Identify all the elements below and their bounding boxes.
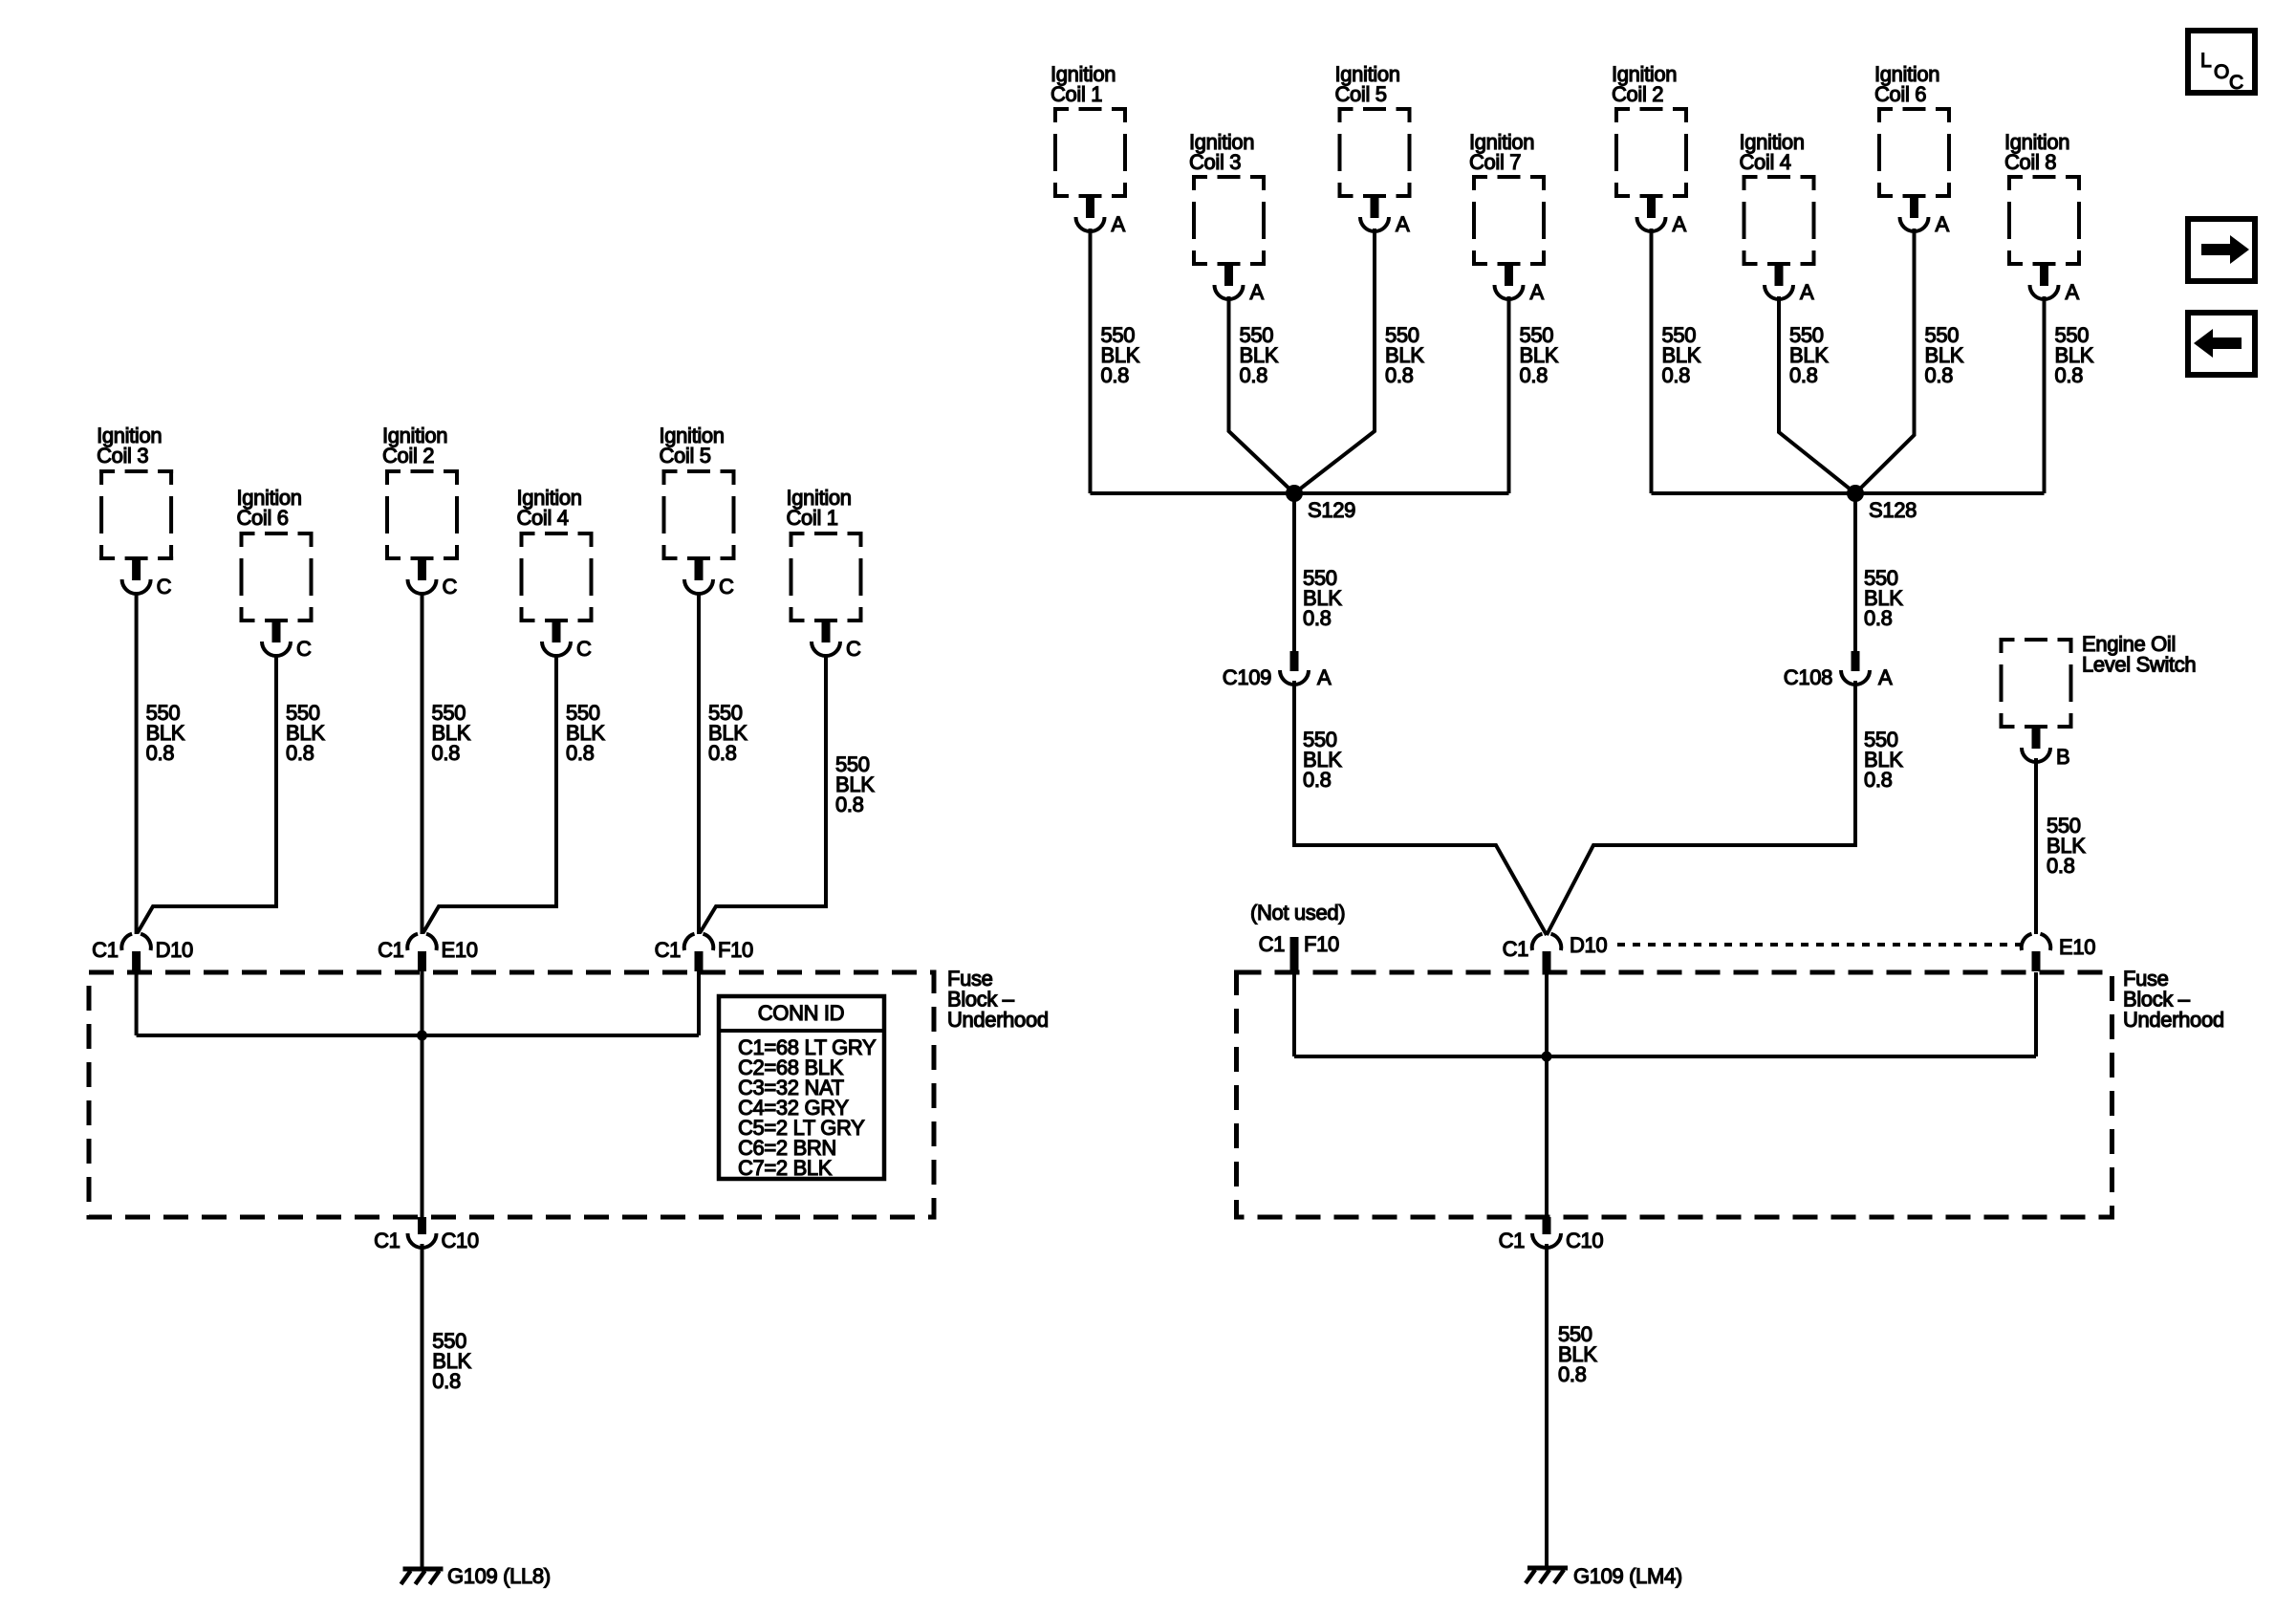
wire label 550 BLK 0.8 (1101, 323, 1140, 387)
wire label 550 BLK 0.8 (566, 701, 605, 765)
connector pin C of Ignition Coil 3 (122, 560, 151, 594)
svg-text:Coil 2: Coil 2 (382, 444, 434, 468)
svg-text:0.8: 0.8 (1303, 606, 1332, 630)
svg-text:Coil 2: Coil 2 (1612, 82, 1663, 106)
svg-text:0.8: 0.8 (1925, 363, 1954, 387)
splice S129 dot (1286, 485, 1303, 502)
Ignition Coil 3 dashed box (99, 469, 173, 560)
fuse block underhood (right) label (2123, 967, 2224, 1032)
connector pin A of Ignition Coil 7 (right) (1495, 266, 1524, 299)
wire label 550 BLK 0.8 (1385, 323, 1424, 387)
inline connector C109 (1280, 651, 1309, 685)
wire label 550 BLK 0.8 (1789, 323, 1829, 387)
svg-text:C: C (2229, 72, 2243, 94)
wire S129 to C109 (1292, 493, 1296, 651)
svg-text:C10: C10 (1566, 1229, 1603, 1252)
svg-text:0.8: 0.8 (1240, 363, 1268, 387)
svg-text:0.8: 0.8 (708, 741, 737, 765)
svg-text:A: A (1112, 212, 1126, 236)
wire Ignition Coil 2 to E10 (421, 594, 424, 934)
svg-text:(Not used): (Not used) (1250, 901, 1345, 925)
wire C109 to D10 (1294, 681, 1547, 935)
svg-text:0.8: 0.8 (1520, 363, 1549, 387)
svg-text:C1: C1 (378, 938, 404, 962)
connector E10 at right fuse block (2022, 934, 2051, 971)
Ignition Coil 4 (right) dashed box (1743, 175, 1816, 266)
inline connector C108 (1841, 651, 1870, 685)
wire label 550 BLK 0.8 (2055, 323, 2094, 387)
svg-text:Coil 3: Coil 3 (1189, 150, 1241, 174)
svg-text:G109 (LL8): G109 (LL8) (447, 1564, 551, 1588)
junction dot at left bus (417, 1031, 427, 1041)
svg-text:A: A (1800, 280, 1814, 304)
svg-text:L: L (2200, 50, 2211, 72)
svg-text:0.8: 0.8 (146, 741, 175, 765)
Ignition Coil 6 label (237, 486, 302, 530)
wire label 550 BLK 0.8 (1240, 323, 1279, 387)
svg-text:E10: E10 (442, 938, 478, 962)
wire Ignition Coil 4 to E10 (423, 656, 557, 933)
svg-text:Coil 4: Coil 4 (1740, 150, 1791, 174)
wire label 550 BLK 0.8 (432, 701, 471, 765)
svg-text:C: C (846, 637, 861, 661)
svg-text:C1: C1 (1259, 932, 1286, 956)
svg-text:D10: D10 (156, 938, 193, 962)
svg-text:A: A (1936, 212, 1950, 236)
svg-text:C1: C1 (374, 1229, 401, 1252)
connector pin C of Ignition Coil 4 (542, 622, 571, 656)
svg-text:E10: E10 (2059, 935, 2095, 959)
svg-text:C: C (719, 575, 734, 599)
wire E10 into right block (2034, 972, 2038, 1056)
wire Coil 6 to S128 (1855, 229, 1915, 493)
svg-text:C7=2 BLK: C7=2 BLK (738, 1156, 833, 1180)
connector pin A of Ignition Coil 6 (right) (1900, 198, 1929, 231)
wire label 550 BLK 0.8 (708, 701, 747, 765)
svg-text:A: A (1317, 665, 1332, 689)
svg-text:Coil 1: Coil 1 (787, 506, 838, 530)
CONN ID table (719, 996, 884, 1180)
Ignition Coil 1 (right) dashed box (1053, 107, 1127, 198)
svg-text:G109 (LM4): G109 (LM4) (1573, 1564, 1682, 1588)
Ignition Coil 6 (right) dashed box (1877, 107, 1951, 198)
Ignition Coil 8 (right) label (2004, 130, 2069, 174)
connector pin A of Ignition Coil 2 (right) (1637, 198, 1666, 231)
connector C1 D10 at fuse block (121, 934, 151, 971)
svg-text:C: C (157, 575, 172, 599)
svg-text:Coil 6: Coil 6 (1874, 82, 1926, 106)
svg-text:Coil 3: Coil 3 (97, 444, 148, 468)
bus wire into splice S128 (1652, 491, 2045, 495)
svg-text:D10: D10 (1570, 933, 1607, 957)
wire label 550 BLK 0.8 (2047, 814, 2086, 878)
svg-text:C109: C109 (1223, 665, 1271, 689)
svg-text:F10: F10 (718, 938, 753, 962)
connector pin A of Ignition Coil 4 (right) (1765, 266, 1793, 299)
ground G109 (LL8) (401, 1569, 444, 1584)
connector C1 F10 at fuse block (684, 934, 714, 971)
svg-text:0.8: 0.8 (1662, 363, 1691, 387)
svg-text:A: A (2066, 280, 2080, 304)
svg-text:Coil 7: Coil 7 (1469, 150, 1521, 174)
ground G109 (LM4) (1526, 1568, 1568, 1583)
svg-text:A: A (1530, 280, 1545, 304)
wire F10 into right block (1292, 972, 1296, 1056)
wire label 550 BLK 0.8 (286, 701, 325, 765)
svg-text:Coil 8: Coil 8 (2004, 150, 2056, 174)
wire label 550 BLK 0.8 (1864, 728, 1903, 792)
svg-text:A: A (1878, 665, 1893, 689)
Ignition Coil 4 (right) label (1740, 130, 1805, 174)
svg-text:Underhood: Underhood (947, 1008, 1049, 1032)
Ignition Coil 2 dashed box (385, 469, 459, 560)
wire Coil 1 down to bus (1089, 229, 1093, 493)
svg-text:0.8: 0.8 (2047, 854, 2075, 878)
svg-text:0.8: 0.8 (1864, 606, 1893, 630)
svg-text:C: C (576, 637, 592, 661)
connector pin C of Ignition Coil 6 (262, 622, 291, 656)
svg-text:0.8: 0.8 (1864, 768, 1893, 792)
bus wire inside right fuse block (1294, 1055, 2036, 1058)
left arrow navigation box (2188, 313, 2255, 375)
svg-text:C1: C1 (655, 938, 682, 962)
wire label 550 BLK 0.8 (146, 701, 185, 765)
svg-text:0.8: 0.8 (2055, 363, 2084, 387)
wire label 550 BLK 0.8 (835, 752, 875, 816)
wire Coil 8 down to bus (2043, 296, 2047, 493)
svg-text:0.8: 0.8 (1101, 363, 1130, 387)
connector C1 D10 at right fuse block (1532, 934, 1562, 971)
svg-text:F10: F10 (1304, 932, 1339, 956)
wire Ignition Coil 5 to F10 (697, 594, 701, 934)
svg-text:C1: C1 (1499, 1229, 1526, 1252)
splice S128 dot (1847, 485, 1864, 502)
connector pin A of Ignition Coil 3 (right) (1215, 266, 1244, 299)
svg-text:C10: C10 (442, 1229, 479, 1252)
bus wire into splice S129 (1091, 491, 1509, 495)
connector C1 C10 below left fuse block (408, 1217, 437, 1248)
Ignition Coil 5 (right) label (1335, 62, 1400, 106)
svg-text:Level Switch: Level Switch (2082, 653, 2196, 677)
Ignition Coil 4 label (517, 486, 582, 530)
Ignition Coil 5 dashed box (662, 469, 736, 560)
fuse block underhood (right) dashed outline (1237, 972, 2112, 1217)
pin F10 (not used) (1290, 937, 1299, 972)
fuse block underhood (left) label (947, 967, 1049, 1032)
connector pin A of Ignition Coil 5 (right) (1360, 198, 1389, 231)
junction dot at right bus (1542, 1052, 1552, 1062)
svg-text:0.8: 0.8 (1558, 1362, 1587, 1386)
connector pin A of Ignition Coil 1 (right) (1076, 198, 1105, 231)
Ignition Coil 6 (right) label (1874, 62, 1939, 106)
Ignition Coil 2 (right) dashed box (1614, 107, 1688, 198)
svg-text:C: C (296, 637, 312, 661)
wire Coil 7 down to bus (1507, 296, 1511, 493)
Ignition Coil 8 (right) dashed box (2007, 175, 2081, 266)
wire Coil 3 to S129 (1229, 296, 1295, 493)
Ignition Coil 3 (right) label (1189, 130, 1254, 174)
wire F10 into block (697, 971, 701, 1035)
Ignition Coil 4 dashed box (520, 532, 594, 622)
svg-text:Coil 4: Coil 4 (517, 506, 569, 530)
Ignition Coil 6 dashed box (240, 532, 314, 622)
svg-text:0.8: 0.8 (432, 1369, 461, 1393)
connector pin B of Engine Oil Level Switch (2022, 729, 2050, 762)
right arrow navigation box (2188, 219, 2255, 281)
Ignition Coil 5 (right) dashed box (1338, 107, 1412, 198)
wire Ignition Coil 6 to D10 (138, 656, 276, 933)
connector pin C of Ignition Coil 5 (684, 560, 713, 594)
Ignition Coil 2 label (382, 424, 447, 468)
wire label 550 BLK 0.8 (432, 1329, 471, 1393)
svg-text:0.8: 0.8 (286, 741, 314, 765)
connector pin C of Ignition Coil 2 (408, 560, 437, 594)
svg-text:C: C (443, 575, 458, 599)
wire label 550 BLK 0.8 (1303, 566, 1342, 630)
Ignition Coil 2 (right) label (1612, 62, 1677, 106)
svg-text:C1: C1 (92, 938, 119, 962)
svg-text:A: A (1673, 212, 1687, 236)
svg-text:Underhood: Underhood (2123, 1008, 2224, 1032)
wire Coil 4 to S128 (1779, 296, 1855, 493)
wire E10 through block to C10 (421, 971, 424, 1217)
wire C108 to D10 (1547, 681, 1855, 935)
wire S128 to C108 (1853, 493, 1857, 651)
svg-text:S129: S129 (1308, 498, 1355, 522)
svg-text:A: A (1396, 212, 1410, 236)
wire oil level switch to E10 (2034, 758, 2038, 934)
svg-text:C108: C108 (1784, 665, 1832, 689)
svg-text:CONN ID: CONN ID (758, 1001, 844, 1025)
svg-text:A: A (1250, 280, 1265, 304)
wire label 550 BLK 0.8 (1662, 323, 1701, 387)
svg-text:0.8: 0.8 (1385, 363, 1414, 387)
Ignition Coil 1 dashed box (790, 532, 863, 622)
wire D10 into block (135, 971, 139, 1035)
LOC legend box (2188, 31, 2255, 94)
wire Ignition Coil 1 to F10 (700, 656, 826, 933)
wire label 550 BLK 0.8 (1864, 566, 1903, 630)
svg-text:0.8: 0.8 (1789, 363, 1818, 387)
Ignition Coil 1 (right) label (1051, 62, 1116, 106)
Ignition Coil 5 label (660, 424, 725, 468)
wire Ignition Coil 3 to D10 (135, 594, 139, 934)
bus wire inside left fuse block (137, 1034, 699, 1037)
Ignition Coil 7 (right) dashed box (1472, 175, 1546, 266)
svg-text:Coil 5: Coil 5 (1335, 82, 1387, 106)
wire label 550 BLK 0.8 (1520, 323, 1559, 387)
Engine Oil Level Switch label (2082, 632, 2196, 677)
fuse block underhood (left) dashed outline (89, 972, 934, 1217)
wire label 550 BLK 0.8 (1558, 1322, 1597, 1386)
Ignition Coil 3 (right) dashed box (1192, 175, 1266, 266)
svg-text:0.8: 0.8 (566, 741, 595, 765)
wire Coil 2 down to bus (1650, 229, 1654, 493)
svg-text:O: O (2214, 61, 2229, 83)
Ignition Coil 1 label (787, 486, 852, 530)
connector C1 E10 at fuse block (407, 934, 437, 971)
dotted wire D10 to E10 (not used path) (1617, 943, 2021, 947)
svg-text:0.8: 0.8 (1303, 768, 1332, 792)
Ignition Coil 3 label (97, 424, 162, 468)
Ignition Coil 7 (right) label (1469, 130, 1534, 174)
svg-text:Coil 6: Coil 6 (237, 506, 289, 530)
svg-text:0.8: 0.8 (432, 741, 461, 765)
wire Coil 5 to S129 (1294, 229, 1375, 493)
connector pin C of Ignition Coil 1 (812, 622, 840, 656)
wire C10 to ground G109 LL8 (421, 1244, 424, 1567)
svg-text:Coil 1: Coil 1 (1051, 82, 1102, 106)
svg-text:S128: S128 (1869, 498, 1917, 522)
Engine Oil Level Switch dashed box (2000, 638, 2073, 729)
svg-text:0.8: 0.8 (835, 793, 864, 816)
svg-text:Coil 5: Coil 5 (660, 444, 711, 468)
wire label 550 BLK 0.8 (1925, 323, 1964, 387)
svg-text:B: B (2056, 745, 2069, 769)
wire D10 through right block to C10 (1545, 971, 1549, 1217)
connector pin A of Ignition Coil 8 (right) (2030, 266, 2059, 299)
wire right C10 to ground G109 LM4 (1545, 1244, 1549, 1566)
svg-text:C1: C1 (1503, 937, 1529, 961)
connector C1 C10 below right fuse block (1532, 1217, 1561, 1248)
wire label 550 BLK 0.8 (1303, 728, 1342, 792)
